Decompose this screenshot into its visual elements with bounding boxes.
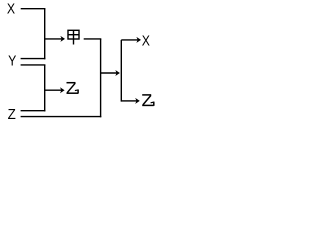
wire arrow shaft to 甲 [45, 38, 63, 40]
svg-text:X: X [7, 1, 15, 17]
node 乙 right [142, 95, 154, 106]
arrowhead merge [115, 70, 120, 76]
wire arrow shaft to 乙 left [45, 89, 62, 91]
svg-text:Z: Z [8, 107, 16, 122]
wire right split vertical [120, 40, 122, 102]
wire bracket X-Y vertical [44, 9, 46, 60]
svg-text:Y: Y [8, 54, 16, 70]
svg-text:X: X [142, 34, 150, 50]
wire bracket Y-Z vertical [44, 65, 46, 112]
arrowhead to X right [136, 37, 141, 43]
wire Z upper [21, 110, 46, 112]
wire from X right [21, 8, 46, 10]
wire Y lower [21, 64, 46, 66]
wire Z long bottom [21, 116, 102, 118]
wire merge arrow shaft [101, 72, 117, 74]
node 乙 left [67, 83, 79, 94]
arrowhead to 乙 right [135, 98, 140, 104]
arrowhead into 甲 [60, 36, 65, 42]
node 甲 glyph [68, 30, 79, 44]
wire mid vertical [100, 39, 102, 117]
wire arrow shaft to X right [121, 39, 138, 41]
wire from 甲 to mid vertical [84, 38, 102, 40]
wire Y upper [21, 58, 46, 60]
arrowhead into 乙 left [60, 87, 65, 93]
wire arrow shaft to 乙 right [121, 100, 137, 102]
